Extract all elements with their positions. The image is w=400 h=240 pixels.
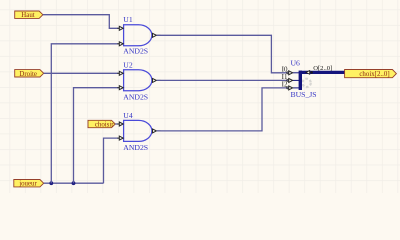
pin I1 xyxy=(293,79,299,81)
wire choisir to U4 pin1 xyxy=(115,123,119,125)
svg-text:joueur: joueur xyxy=(18,181,37,188)
svg-text:U2: U2 xyxy=(123,60,133,69)
wire joueur horizontal run xyxy=(44,182,104,184)
and-gate U1 xyxy=(117,15,160,56)
wire joueur to U1 pin2 xyxy=(51,44,119,183)
pin I0 xyxy=(293,72,299,74)
svg-text:U1: U1 xyxy=(123,15,133,24)
svg-text:choix[2..0]: choix[2..0] xyxy=(359,71,389,78)
wire joueur to U2 pin2 xyxy=(74,88,120,184)
junction dot at x73.5 xyxy=(72,181,76,185)
svg-text:AND2S: AND2S xyxy=(123,92,148,101)
port Haut xyxy=(15,11,43,19)
and-gate U2 xyxy=(117,60,160,101)
port Droite xyxy=(15,70,44,78)
svg-text:U6: U6 xyxy=(291,58,301,67)
svg-text:AND2S: AND2S xyxy=(123,143,148,152)
port choisir xyxy=(88,120,115,128)
svg-text:I2: I2 xyxy=(282,81,288,89)
port joueur xyxy=(14,180,44,188)
wire Droite to U2 pin1 xyxy=(44,72,120,74)
wire U2 output to U6 I1 xyxy=(157,79,289,81)
svg-text:Droite: Droite xyxy=(19,71,37,78)
svg-text:O[2..0]: O[2..0] xyxy=(313,65,332,72)
grey body arc xyxy=(302,79,310,87)
svg-text:AND2S: AND2S xyxy=(123,47,148,56)
bus joiner U6 BUS_JS xyxy=(282,58,317,99)
wire joueur to U4 pin2 xyxy=(104,138,120,183)
svg-text:U4: U4 xyxy=(123,111,133,120)
pin I2 xyxy=(293,87,299,89)
bus wire O[2..0] to port choix xyxy=(299,71,345,74)
svg-text:choisir: choisir xyxy=(95,121,114,128)
svg-text:Haut: Haut xyxy=(21,12,34,19)
vertical bus bar xyxy=(299,71,302,90)
junction dot at x51 xyxy=(49,181,53,185)
port choix[2..0] xyxy=(345,70,397,78)
pin O[2..0] arrow xyxy=(306,71,310,75)
and-gate U4 xyxy=(117,111,160,152)
wire U4 output to U6 I2 xyxy=(157,88,289,131)
svg-text:BUS_JS: BUS_JS xyxy=(291,90,317,99)
wire Haut to U1 pin1 xyxy=(43,15,120,29)
wire U1 output to U6 I0 xyxy=(157,35,289,73)
